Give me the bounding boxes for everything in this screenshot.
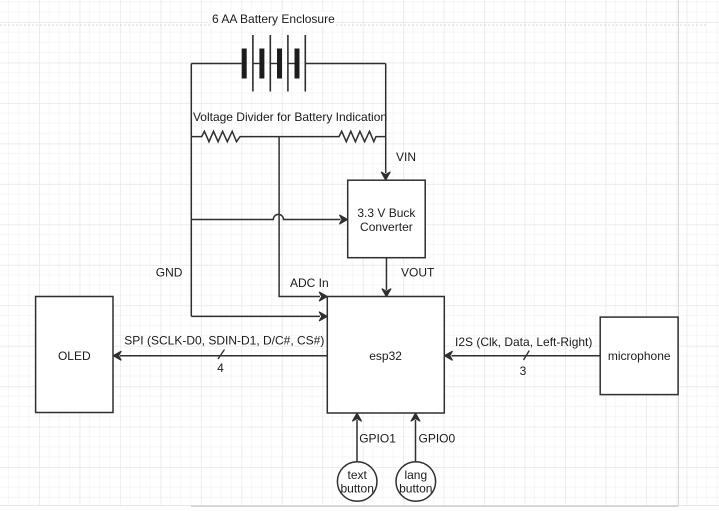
wire GPIO1 [356, 420, 358, 462]
svg-text:Converter: Converter [360, 220, 413, 234]
wire ADC vertical and horizontal [279, 137, 320, 297]
svg-text:GPIO0: GPIO0 [419, 431, 456, 445]
svg-text:4: 4 [217, 361, 224, 375]
svg-text:3: 3 [520, 364, 527, 378]
wire VIN vertical [385, 64, 387, 174]
label battery background [211, 12, 336, 26]
arrowhead ADC into esp32 [319, 292, 327, 301]
bus width slash I2S [524, 351, 530, 361]
button SW2 lang button [396, 462, 436, 502]
svg-text:3.3 V Buck: 3.3 V Buck [357, 206, 416, 220]
svg-text:esp32: esp32 [369, 349, 402, 363]
arrowhead GND into esp32 [319, 312, 327, 321]
svg-text:button: button [399, 481, 432, 495]
svg-text:button: button [341, 481, 374, 495]
box OLED [36, 297, 113, 413]
wire SPI [120, 355, 327, 357]
bus width slash SPI [218, 350, 225, 360]
svg-text:SPI (SCLK-D0, SDIN-D1, D/C#, C: SPI (SCLK-D0, SDIN-D1, D/C#, CS#) [124, 334, 324, 348]
svg-text:OLED: OLED [58, 349, 91, 363]
wire VOUT [385, 258, 387, 290]
arrowhead buck feed [340, 215, 348, 224]
svg-text:lang: lang [404, 468, 427, 482]
page boundary vertical [677, 0, 679, 506]
arrowhead VIN into buck [381, 172, 390, 180]
arrowhead GPIO1 into esp32 [353, 413, 362, 421]
svg-text:I2S (Clk, Data, Left-Right): I2S (Clk, Data, Left-Right) [455, 335, 592, 349]
wire GPIO0 [415, 420, 417, 462]
wire battery top right [305, 63, 386, 65]
svg-text:microphone: microphone [608, 349, 671, 363]
arrowhead GPIO0 into esp32 [411, 413, 420, 421]
box esp32 U1 [327, 297, 444, 414]
box buck converter [348, 180, 426, 258]
wire buck feed with hop over ADC wire [191, 214, 340, 219]
wire I2S [452, 355, 601, 357]
page boundary bottom [0, 505, 719, 507]
svg-text:GND: GND [156, 266, 183, 280]
svg-text:VOUT: VOUT [401, 266, 435, 280]
svg-text:Voltage Divider for Battery In: Voltage Divider for Battery Indication [193, 110, 387, 124]
wire battery left loop vertical [190, 64, 192, 317]
svg-text:6 AA Battery Enclosure: 6 AA Battery Enclosure [212, 12, 335, 26]
wire GND horizontal [191, 315, 320, 317]
svg-text:GPIO1: GPIO1 [359, 431, 396, 445]
wire voltage divider with resistors R1 R2 [191, 131, 385, 141]
arrowhead VOUT into esp32 [382, 289, 391, 297]
svg-text:VIN: VIN [396, 150, 416, 164]
wire battery top left [191, 63, 241, 65]
button SW1 text button [337, 462, 377, 502]
battery B1 (4 cells) [242, 35, 306, 92]
page break dashed line [0, 24, 708, 26]
box microphone [600, 317, 678, 395]
arrowhead I2S into esp32 [445, 351, 453, 360]
svg-text:text: text [348, 468, 368, 482]
svg-text:ADC In: ADC In [290, 276, 329, 290]
arrowhead SPI into OLED [113, 351, 121, 360]
